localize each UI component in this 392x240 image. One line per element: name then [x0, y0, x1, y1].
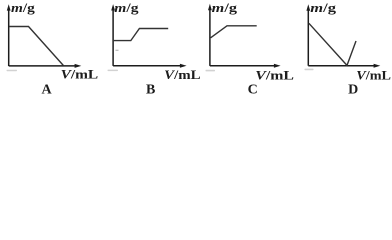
- svg-text:C: C: [248, 83, 258, 98]
- svg-text:m/g: m/g: [11, 0, 35, 15]
- svg-text:V/mL: V/mL: [61, 66, 99, 81]
- svg-text:m/g: m/g: [212, 0, 238, 15]
- svg-text:V/mL: V/mL: [255, 67, 294, 82]
- svg-text:B: B: [146, 83, 155, 98]
- svg-text:V/mL: V/mL: [164, 67, 201, 82]
- svg-text:m/g: m/g: [310, 0, 336, 15]
- svg-text:D: D: [348, 83, 358, 98]
- svg-text:m/g: m/g: [114, 0, 139, 15]
- svg-text:V/mL: V/mL: [356, 68, 391, 83]
- svg-text:A: A: [41, 83, 52, 98]
